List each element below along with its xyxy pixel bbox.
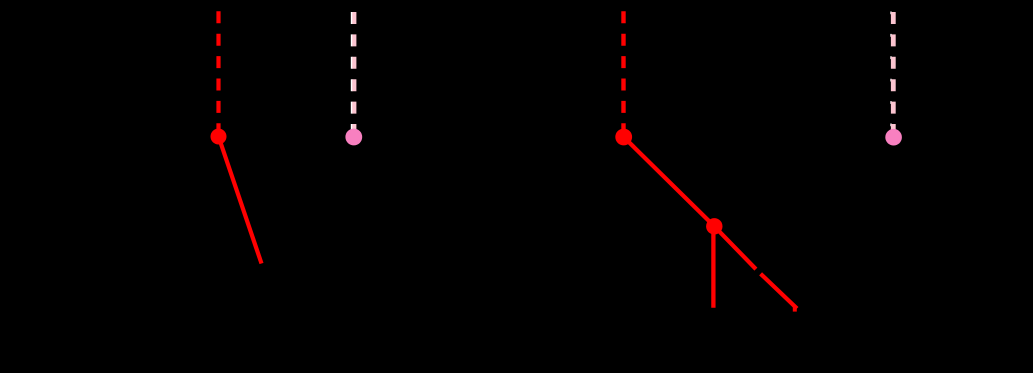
wire: right red solid rod from top dot to middle dot xyxy=(624,137,715,226)
wire: far right pink dashed vertical line xyxy=(891,12,896,137)
wire: far right pink dashed vertical white underline xyxy=(890,12,892,138)
wire: left pink dashed vertical line xyxy=(352,12,356,137)
wire: right red vertical component line xyxy=(711,226,715,307)
wire: right red dashed vertical trajectory line xyxy=(621,11,625,137)
node: left pink dot xyxy=(345,129,362,146)
node: right middle red dot xyxy=(706,218,722,234)
wire: left red solid rod from pivot dot down-right xyxy=(219,137,262,264)
wire: small notch at end of diagonal xyxy=(793,307,797,312)
node: far right pink dot xyxy=(885,129,902,146)
wire: left red dashed vertical trajectory line xyxy=(216,11,220,136)
wire: left pink dashed vertical white underline xyxy=(351,12,353,137)
wire: right red dashed continuation beyond middle dot xyxy=(714,226,797,308)
node: left red dot xyxy=(211,129,227,145)
node: right top red dot xyxy=(615,129,632,146)
